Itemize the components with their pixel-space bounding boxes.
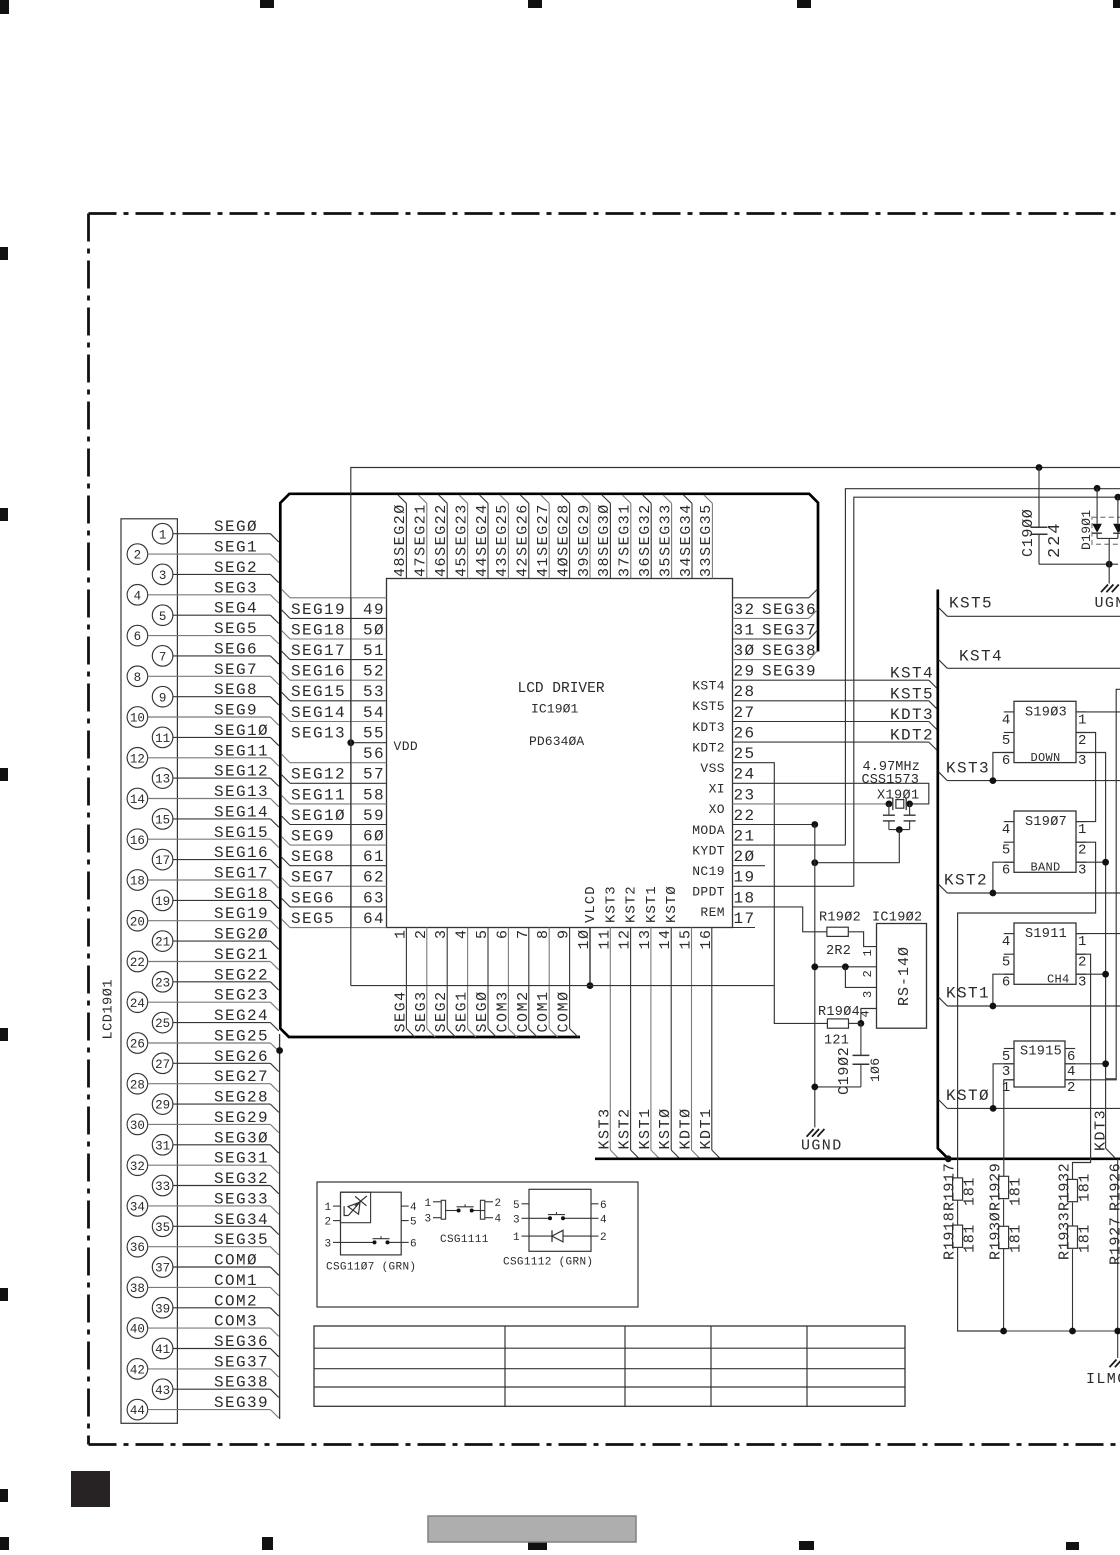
svg-text:39SEG29: 39SEG29 bbox=[576, 503, 593, 577]
svg-text:181: 181 bbox=[962, 1177, 979, 1206]
svg-text:30: 30 bbox=[130, 1119, 145, 1133]
svg-text:COM1: COM1 bbox=[214, 1272, 258, 1290]
svg-text:54: 54 bbox=[363, 704, 385, 722]
wire S1915 pin1 to R1929 column bbox=[1004, 1080, 1014, 1177]
svg-text:19: 19 bbox=[155, 895, 170, 909]
IC1902 pin 4 wire and number bbox=[859, 1009, 877, 1024]
junction key bus corner bbox=[945, 1155, 952, 1162]
svg-text:SEG21: SEG21 bbox=[214, 946, 269, 964]
svg-text:SEG12: SEG12 bbox=[291, 766, 346, 784]
wire S1907 pin6 to KST2 bbox=[990, 862, 1015, 896]
svg-text:61: 61 bbox=[363, 848, 385, 866]
pin 42 (SEG26) top wire and label bbox=[515, 495, 532, 579]
IC1901 left pin row line 12 bbox=[282, 837, 387, 846]
svg-text:11: 11 bbox=[596, 928, 613, 949]
svg-text:SEG1Ø: SEG1Ø bbox=[214, 722, 269, 740]
svg-text:45SEG23: 45SEG23 bbox=[453, 503, 470, 577]
svg-text:36SEG32: 36SEG32 bbox=[637, 503, 654, 577]
svg-text:SEGØ: SEGØ bbox=[214, 518, 258, 536]
svg-text:SEG17: SEG17 bbox=[214, 865, 269, 883]
wire SEG/COM bus (thick) around LCD driver bbox=[280, 494, 818, 1037]
IC1901 left pin row line 9 bbox=[282, 775, 387, 784]
svg-text:9: 9 bbox=[159, 691, 167, 705]
svg-text:16: 16 bbox=[698, 928, 715, 949]
svg-text:R1932: R1932 bbox=[1057, 1162, 1074, 1211]
svg-text:47SEG21: 47SEG21 bbox=[413, 503, 430, 577]
wire VLCD/VSS to R1904 bbox=[774, 986, 827, 1024]
pin 1 (SEG4) bottom wire bbox=[392, 928, 414, 1038]
wire S1915 pin4 junction with chain bbox=[1065, 1060, 1109, 1067]
pin number 22 bbox=[734, 807, 756, 825]
IC1901 left pin row line 11 bbox=[282, 816, 387, 825]
svg-text:3: 3 bbox=[1078, 753, 1087, 769]
pin 16 (KDT1) bottom wire bbox=[698, 928, 721, 1159]
pin number 62 bbox=[363, 869, 385, 887]
pin label SEG1Ø (pin 59) bbox=[291, 807, 346, 825]
connector pin 18 (SEG17) bbox=[127, 865, 279, 891]
wire crystal caps to UGND net bbox=[811, 826, 909, 866]
pin number 19 bbox=[734, 869, 756, 887]
svg-text:33: 33 bbox=[155, 1180, 170, 1194]
svg-text:31: 31 bbox=[155, 1139, 170, 1153]
label KYDT (pin 20) bbox=[692, 843, 725, 858]
svg-text:1: 1 bbox=[159, 528, 167, 542]
pin number 26 bbox=[734, 725, 756, 743]
wire KYDT vertical to D1901 row bbox=[845, 489, 1120, 845]
svg-text:59: 59 bbox=[363, 807, 385, 825]
svg-text:2: 2 bbox=[134, 549, 142, 563]
svg-text:R19Ø4: R19Ø4 bbox=[818, 1005, 860, 1020]
svg-text:49: 49 bbox=[363, 601, 385, 619]
pin 14 (KSTØ) bottom wire bbox=[657, 885, 680, 1158]
connector pin 13 (SEG12) bbox=[152, 763, 278, 789]
svg-text:KDTØ: KDTØ bbox=[678, 1107, 695, 1149]
svg-text:4: 4 bbox=[495, 1214, 502, 1226]
label IC1902 bbox=[872, 911, 922, 926]
pin 37 (SEG31) top wire and label bbox=[617, 495, 634, 579]
svg-text:SEG17: SEG17 bbox=[291, 642, 346, 660]
wire R1926/R1927 column (cut at page edge) bbox=[1108, 1159, 1120, 1358]
connector pin 31 (SEG3Ø) bbox=[152, 1129, 278, 1155]
pin number 54 bbox=[363, 704, 385, 722]
svg-text:NC19: NC19 bbox=[692, 864, 725, 879]
svg-text:181: 181 bbox=[1077, 1224, 1094, 1253]
connector pin 38 (COM1) bbox=[127, 1272, 279, 1298]
resistor R1929 bbox=[988, 1162, 1025, 1211]
pin number 29 bbox=[734, 663, 756, 681]
connector pin 28 (SEG27) bbox=[127, 1068, 279, 1094]
svg-text:KDT2: KDT2 bbox=[890, 727, 934, 745]
svg-text:1: 1 bbox=[1002, 1080, 1011, 1096]
svg-text:KST4: KST4 bbox=[890, 665, 934, 683]
svg-text:IC19Ø1: IC19Ø1 bbox=[531, 702, 579, 717]
pin 15 (KDTØ) bottom wire bbox=[678, 928, 701, 1159]
registration marks left edge bbox=[0, 247, 8, 1502]
pin 33 (SEG35) top wire and label bbox=[698, 495, 715, 579]
pin number 50 bbox=[363, 621, 385, 639]
svg-text:5: 5 bbox=[1002, 955, 1011, 971]
legend box outline bbox=[317, 1182, 638, 1307]
label LCD1901 bbox=[102, 979, 117, 1040]
switch S1911 (CH4) bbox=[1002, 923, 1087, 991]
svg-text:KDT3: KDT3 bbox=[890, 706, 934, 724]
svg-text:CH4: CH4 bbox=[1047, 973, 1070, 987]
pin number 49 bbox=[363, 601, 385, 619]
svg-text:R1926: R1926 bbox=[1108, 1162, 1120, 1211]
svg-text:52: 52 bbox=[363, 663, 385, 681]
svg-text:SEG9: SEG9 bbox=[291, 828, 335, 846]
connector pin 26 (SEG25) bbox=[127, 1028, 279, 1054]
svg-text:29: 29 bbox=[155, 1099, 170, 1113]
pin label SEG6 (pin 63) bbox=[291, 889, 335, 907]
svg-text:5: 5 bbox=[474, 928, 491, 939]
connector pin 1 (SEGØ) bbox=[152, 518, 278, 544]
connector pin 43 (SEG38) bbox=[152, 1374, 278, 1400]
svg-text:8: 8 bbox=[535, 928, 552, 939]
ground UGND (below IC1902) bbox=[801, 1129, 843, 1155]
svg-text:SEG36: SEG36 bbox=[762, 601, 817, 619]
connector pin 36 (SEG35) bbox=[127, 1231, 279, 1257]
svg-text:3: 3 bbox=[425, 1214, 432, 1226]
svg-text:10: 10 bbox=[130, 712, 145, 726]
svg-text:2: 2 bbox=[413, 928, 430, 939]
IC1901 left pin row line 10 bbox=[282, 795, 387, 804]
svg-text:CSG1111: CSG1111 bbox=[440, 1234, 489, 1246]
svg-text:X19Ø1: X19Ø1 bbox=[877, 789, 920, 804]
svg-text:R19Ø2: R19Ø2 bbox=[819, 911, 861, 926]
pin 36 (SEG32) top wire and label bbox=[637, 495, 654, 579]
pin label SEG18 (pin 50) bbox=[291, 621, 346, 639]
svg-text:2Ø: 2Ø bbox=[734, 848, 756, 866]
connector pin 9 (SEG8) bbox=[152, 681, 278, 707]
svg-text:SEG3Ø: SEG3Ø bbox=[214, 1129, 269, 1147]
svg-text:42SEG26: 42SEG26 bbox=[515, 503, 532, 577]
svg-text:5: 5 bbox=[1002, 843, 1011, 859]
net label KDT2 bbox=[890, 727, 934, 745]
svg-text:34: 34 bbox=[130, 1201, 145, 1215]
connector pin 15 (SEG14) bbox=[152, 803, 278, 829]
connector pin 2 (SEG1) bbox=[127, 539, 279, 565]
svg-text:27: 27 bbox=[734, 704, 756, 722]
svg-text:KDT3: KDT3 bbox=[692, 720, 725, 735]
svg-text:17: 17 bbox=[155, 854, 170, 868]
svg-text:23: 23 bbox=[734, 786, 756, 804]
pin number 53 bbox=[363, 683, 385, 701]
resistor R1917 bbox=[942, 1162, 979, 1211]
IC1902 pin 3 wire and number bbox=[845, 967, 876, 998]
diode D1901 (dual LED, dashed outline) bbox=[1092, 488, 1120, 583]
label KDT3 (pin 26) bbox=[692, 720, 725, 735]
wire KST5 pin27 to key bus bbox=[733, 701, 938, 710]
svg-text:KST1: KST1 bbox=[644, 885, 660, 923]
pin number 63 bbox=[363, 889, 385, 907]
svg-text:SEG4: SEG4 bbox=[392, 990, 409, 1032]
svg-text:LCD19Ø1: LCD19Ø1 bbox=[102, 979, 117, 1040]
svg-text:KST3: KST3 bbox=[946, 760, 990, 778]
label IC1901 bbox=[531, 702, 579, 717]
svg-text:3Ø: 3Ø bbox=[734, 642, 756, 660]
svg-text:SEG39: SEG39 bbox=[214, 1394, 269, 1412]
svg-text:15: 15 bbox=[155, 814, 170, 828]
svg-text:SEG22: SEG22 bbox=[214, 966, 269, 984]
pin label SEG9 (pin 60) bbox=[291, 828, 335, 846]
wire KDT3 pin26 to key bus bbox=[733, 722, 938, 731]
pin number 24 bbox=[734, 766, 756, 784]
label MODA (pin 21) bbox=[692, 823, 725, 838]
svg-text:42: 42 bbox=[130, 1364, 145, 1378]
svg-text:SEG28: SEG28 bbox=[214, 1089, 269, 1107]
wire REM pin17 to R1902 bbox=[733, 907, 827, 932]
svg-text:SEG29: SEG29 bbox=[214, 1109, 269, 1127]
svg-text:KSTØ: KSTØ bbox=[946, 1087, 990, 1105]
svg-text:23: 23 bbox=[155, 976, 170, 990]
net label KST5 bbox=[890, 685, 934, 703]
svg-text:S1915: S1915 bbox=[1020, 1045, 1062, 1060]
svg-text:VSS: VSS bbox=[700, 761, 725, 776]
svg-text:21: 21 bbox=[734, 828, 756, 846]
junction S1907 pin3 / chain bbox=[1076, 859, 1109, 866]
svg-text:SEG15: SEG15 bbox=[214, 824, 269, 842]
svg-text:4: 4 bbox=[410, 1202, 417, 1214]
pin number 27 bbox=[734, 704, 756, 722]
IC1901 left pin row line 1 bbox=[282, 610, 387, 619]
svg-text:22: 22 bbox=[130, 956, 145, 970]
svg-text:18: 18 bbox=[734, 889, 756, 907]
svg-text:SEG14: SEG14 bbox=[214, 803, 269, 821]
wire SEG37 pin31 to bus bbox=[733, 610, 818, 619]
wire DPDT vertical to D1901 row bbox=[854, 497, 1120, 886]
svg-text:SEG2: SEG2 bbox=[214, 559, 258, 577]
wire R1932 column bbox=[1072, 1203, 1074, 1332]
junction R1904 / IC1902 pin4 / C1902 bbox=[858, 1020, 865, 1027]
svg-text:SEG19: SEG19 bbox=[291, 601, 346, 619]
svg-text:181: 181 bbox=[1008, 1177, 1025, 1206]
svg-text:COM2: COM2 bbox=[214, 1292, 258, 1310]
svg-text:SEG12: SEG12 bbox=[214, 763, 269, 781]
svg-text:S1911: S1911 bbox=[1025, 927, 1067, 942]
svg-text:4: 4 bbox=[454, 928, 471, 939]
wire C1902 to UGND vertical bbox=[811, 1084, 861, 1091]
svg-text:KST1: KST1 bbox=[946, 985, 990, 1003]
svg-text:LCD DRIVER: LCD DRIVER bbox=[518, 681, 605, 697]
svg-text:6: 6 bbox=[1002, 975, 1011, 991]
junction KYDT wire / D1901 anode bbox=[1094, 485, 1101, 492]
ground ILMGND (bottom right) bbox=[1086, 1360, 1120, 1389]
svg-text:29: 29 bbox=[734, 663, 756, 681]
svg-text:SEG19: SEG19 bbox=[214, 905, 269, 923]
svg-text:KST3: KST3 bbox=[596, 1107, 613, 1149]
connector pin 16 (SEG15) bbox=[127, 824, 279, 850]
svg-text:SEG37: SEG37 bbox=[214, 1353, 269, 1371]
IC1901 left pin row line 4 bbox=[282, 672, 387, 681]
svg-text:3: 3 bbox=[433, 928, 450, 939]
switch S1915 bbox=[1002, 1041, 1076, 1096]
capacitor at XO side of X1901 bbox=[883, 804, 895, 830]
wire VDD net vertical and top run bbox=[351, 468, 1120, 986]
svg-text:KDT1: KDT1 bbox=[698, 1107, 715, 1149]
svg-text:SEG27: SEG27 bbox=[214, 1068, 269, 1086]
resistor R1904 bbox=[818, 1005, 860, 1049]
wire R1929 column bbox=[1003, 1200, 1005, 1332]
svg-text:32: 32 bbox=[130, 1160, 145, 1174]
svg-text:3: 3 bbox=[325, 1238, 332, 1250]
pin number 32 bbox=[734, 601, 756, 619]
wire S1903 pin2 to S1907 pin1 bbox=[1076, 733, 1096, 822]
wire MODA pin21 bbox=[733, 821, 819, 828]
svg-text:2: 2 bbox=[1078, 955, 1087, 971]
svg-text:3: 3 bbox=[513, 1214, 520, 1226]
svg-text:SEG5: SEG5 bbox=[291, 910, 335, 928]
svg-text:KST3: KST3 bbox=[603, 885, 619, 923]
junction VDD / C1900 bbox=[1036, 464, 1043, 471]
svg-text:14: 14 bbox=[130, 793, 145, 807]
svg-text:SEG25: SEG25 bbox=[214, 1028, 269, 1046]
wire SEG36 pin32 to bus bbox=[733, 589, 818, 598]
wire S1903 pin3 chain down bbox=[1076, 753, 1115, 1158]
pin label SEG19 (pin 49) bbox=[291, 601, 346, 619]
svg-text:KST1: KST1 bbox=[637, 1107, 654, 1149]
legend part CSG1111 switch bbox=[425, 1198, 502, 1246]
wire key-scan bus (thick vertical) with corner to bottom bus bbox=[595, 590, 1120, 1159]
svg-text:SEG13: SEG13 bbox=[214, 783, 269, 801]
svg-text:16: 16 bbox=[130, 834, 145, 848]
label CSS1573 bbox=[862, 773, 919, 788]
pin 5 (SEGØ) bottom wire bbox=[474, 928, 496, 1038]
label 4.97MHz bbox=[863, 760, 920, 775]
label XO (pin 22) bbox=[709, 802, 725, 817]
svg-text:41: 41 bbox=[155, 1343, 170, 1357]
svg-text:1: 1 bbox=[1078, 822, 1087, 838]
label VSS (pin 24) bbox=[700, 761, 725, 776]
svg-text:2R2: 2R2 bbox=[826, 944, 851, 959]
label PD6340A bbox=[529, 734, 584, 749]
wire SEG39 pin29 to bus bbox=[733, 651, 818, 660]
svg-text:R1933: R1933 bbox=[1057, 1211, 1074, 1260]
svg-text:RS-14Ø: RS-14Ø bbox=[896, 946, 913, 1006]
connector pin 42 (SEG37) bbox=[127, 1353, 279, 1379]
svg-text:SEG5: SEG5 bbox=[214, 620, 258, 638]
IC1901 left pin row line 8 bbox=[282, 754, 387, 763]
junction S1911 pin3 / chain bbox=[1076, 971, 1109, 978]
svg-text:SEG33: SEG33 bbox=[214, 1190, 269, 1208]
svg-text:COMØ: COMØ bbox=[556, 990, 573, 1032]
svg-text:CSG1112 (GRN): CSG1112 (GRN) bbox=[503, 1257, 593, 1269]
pin number 51 bbox=[363, 642, 385, 660]
IC1901 left pin row line 13 bbox=[282, 857, 387, 866]
svg-text:SEG7: SEG7 bbox=[291, 869, 335, 887]
wire MODA/UGND vertical bbox=[814, 825, 816, 1128]
IC1902 pin 2 wire and number bbox=[811, 963, 876, 977]
svg-text:KST5: KST5 bbox=[692, 699, 725, 714]
pin 43 (SEG25) top wire and label bbox=[494, 495, 511, 579]
svg-text:SEG18: SEG18 bbox=[214, 885, 269, 903]
connector pin 32 (SEG31) bbox=[127, 1150, 279, 1176]
net label KDT3 bbox=[890, 706, 934, 724]
svg-text:VLCD: VLCD bbox=[583, 885, 599, 923]
svg-text:SEG26: SEG26 bbox=[214, 1048, 269, 1066]
connector pin 5 (SEG4) bbox=[152, 600, 278, 626]
wire KDT2 pin25 to key bus bbox=[733, 742, 938, 751]
svg-text:6: 6 bbox=[600, 1200, 607, 1212]
junction DPDT wire / D1901 anode bbox=[1115, 494, 1120, 501]
svg-text:38: 38 bbox=[130, 1282, 145, 1296]
svg-text:D19Ø1: D19Ø1 bbox=[1079, 509, 1094, 550]
svg-text:6: 6 bbox=[1067, 1049, 1076, 1065]
connector pin 23 (SEG22) bbox=[152, 966, 278, 992]
svg-text:17: 17 bbox=[734, 910, 756, 928]
svg-text:55: 55 bbox=[363, 725, 385, 743]
label LCD DRIVER bbox=[518, 681, 605, 697]
pin 8 (COM1) bottom wire bbox=[535, 928, 557, 1038]
net KST2 wire from key bus bbox=[939, 872, 1120, 894]
svg-text:44: 44 bbox=[130, 1404, 145, 1418]
svg-text:4: 4 bbox=[1067, 1064, 1076, 1080]
svg-text:CSS1573: CSS1573 bbox=[862, 773, 919, 788]
svg-text:7: 7 bbox=[159, 651, 167, 665]
svg-text:KST4: KST4 bbox=[692, 679, 725, 694]
pin number 18 bbox=[734, 889, 756, 907]
pin number 28 bbox=[734, 683, 756, 701]
svg-text:6: 6 bbox=[1002, 753, 1011, 769]
svg-text:COM3: COM3 bbox=[494, 990, 511, 1032]
net label KDT3 (vertical) bbox=[1093, 1109, 1110, 1151]
connector pin 8 (SEG7) bbox=[127, 661, 279, 687]
pin number 58 bbox=[363, 786, 385, 804]
svg-text:SEG18: SEG18 bbox=[291, 621, 346, 639]
registration marks bottom edge bbox=[0, 1537, 1079, 1550]
pin label SEG12 (pin 57) bbox=[291, 766, 346, 784]
resistor R193Ø bbox=[988, 1211, 1025, 1260]
svg-text:21: 21 bbox=[155, 936, 170, 950]
svg-text:62: 62 bbox=[363, 869, 385, 887]
pin 3 (SEG2) bottom wire bbox=[433, 928, 455, 1038]
svg-text:6Ø: 6Ø bbox=[363, 828, 385, 846]
svg-text:35SEG33: 35SEG33 bbox=[657, 503, 674, 577]
svg-text:CSG11Ø7 (GRN): CSG11Ø7 (GRN) bbox=[326, 1262, 416, 1274]
wire XI pin23 to crystal bbox=[733, 783, 929, 804]
svg-text:37: 37 bbox=[155, 1262, 170, 1276]
svg-text:4: 4 bbox=[1002, 822, 1011, 838]
svg-text:3: 3 bbox=[159, 569, 167, 583]
svg-text:SEG13: SEG13 bbox=[291, 725, 346, 743]
wire KST4 pin28 to key bus bbox=[733, 680, 938, 689]
svg-text:6: 6 bbox=[494, 928, 511, 939]
capacitor at XI side of X1901 bbox=[904, 804, 916, 830]
svg-text:4ØSEG28: 4ØSEG28 bbox=[555, 503, 572, 577]
svg-text:KDT3: KDT3 bbox=[1093, 1109, 1110, 1151]
pin label SEG11 (pin 58) bbox=[291, 786, 346, 804]
svg-text:KST2: KST2 bbox=[944, 872, 988, 890]
connector pin 21 (SEG2Ø) bbox=[152, 926, 278, 952]
svg-text:SEG1Ø: SEG1Ø bbox=[291, 807, 346, 825]
connector pin 20 (SEG19) bbox=[127, 905, 279, 931]
pin NC19 stub bbox=[733, 865, 766, 867]
svg-text:SEG35: SEG35 bbox=[214, 1231, 269, 1249]
svg-text:SEG39: SEG39 bbox=[762, 663, 817, 681]
pin number 61 bbox=[363, 848, 385, 866]
svg-text:SEG38: SEG38 bbox=[214, 1374, 269, 1392]
net label KST4 bbox=[890, 665, 934, 683]
svg-text:3: 3 bbox=[1078, 863, 1087, 879]
svg-text:4: 4 bbox=[859, 1010, 873, 1017]
pin 6 (COM3) bottom wire bbox=[494, 928, 516, 1038]
svg-text:24: 24 bbox=[130, 997, 145, 1011]
svg-text:BAND: BAND bbox=[1031, 861, 1061, 875]
svg-text:43SEG25: 43SEG25 bbox=[494, 503, 511, 577]
svg-text:R1917: R1917 bbox=[942, 1162, 959, 1211]
label X1901 bbox=[877, 789, 920, 804]
label D1901 bbox=[1079, 509, 1094, 550]
